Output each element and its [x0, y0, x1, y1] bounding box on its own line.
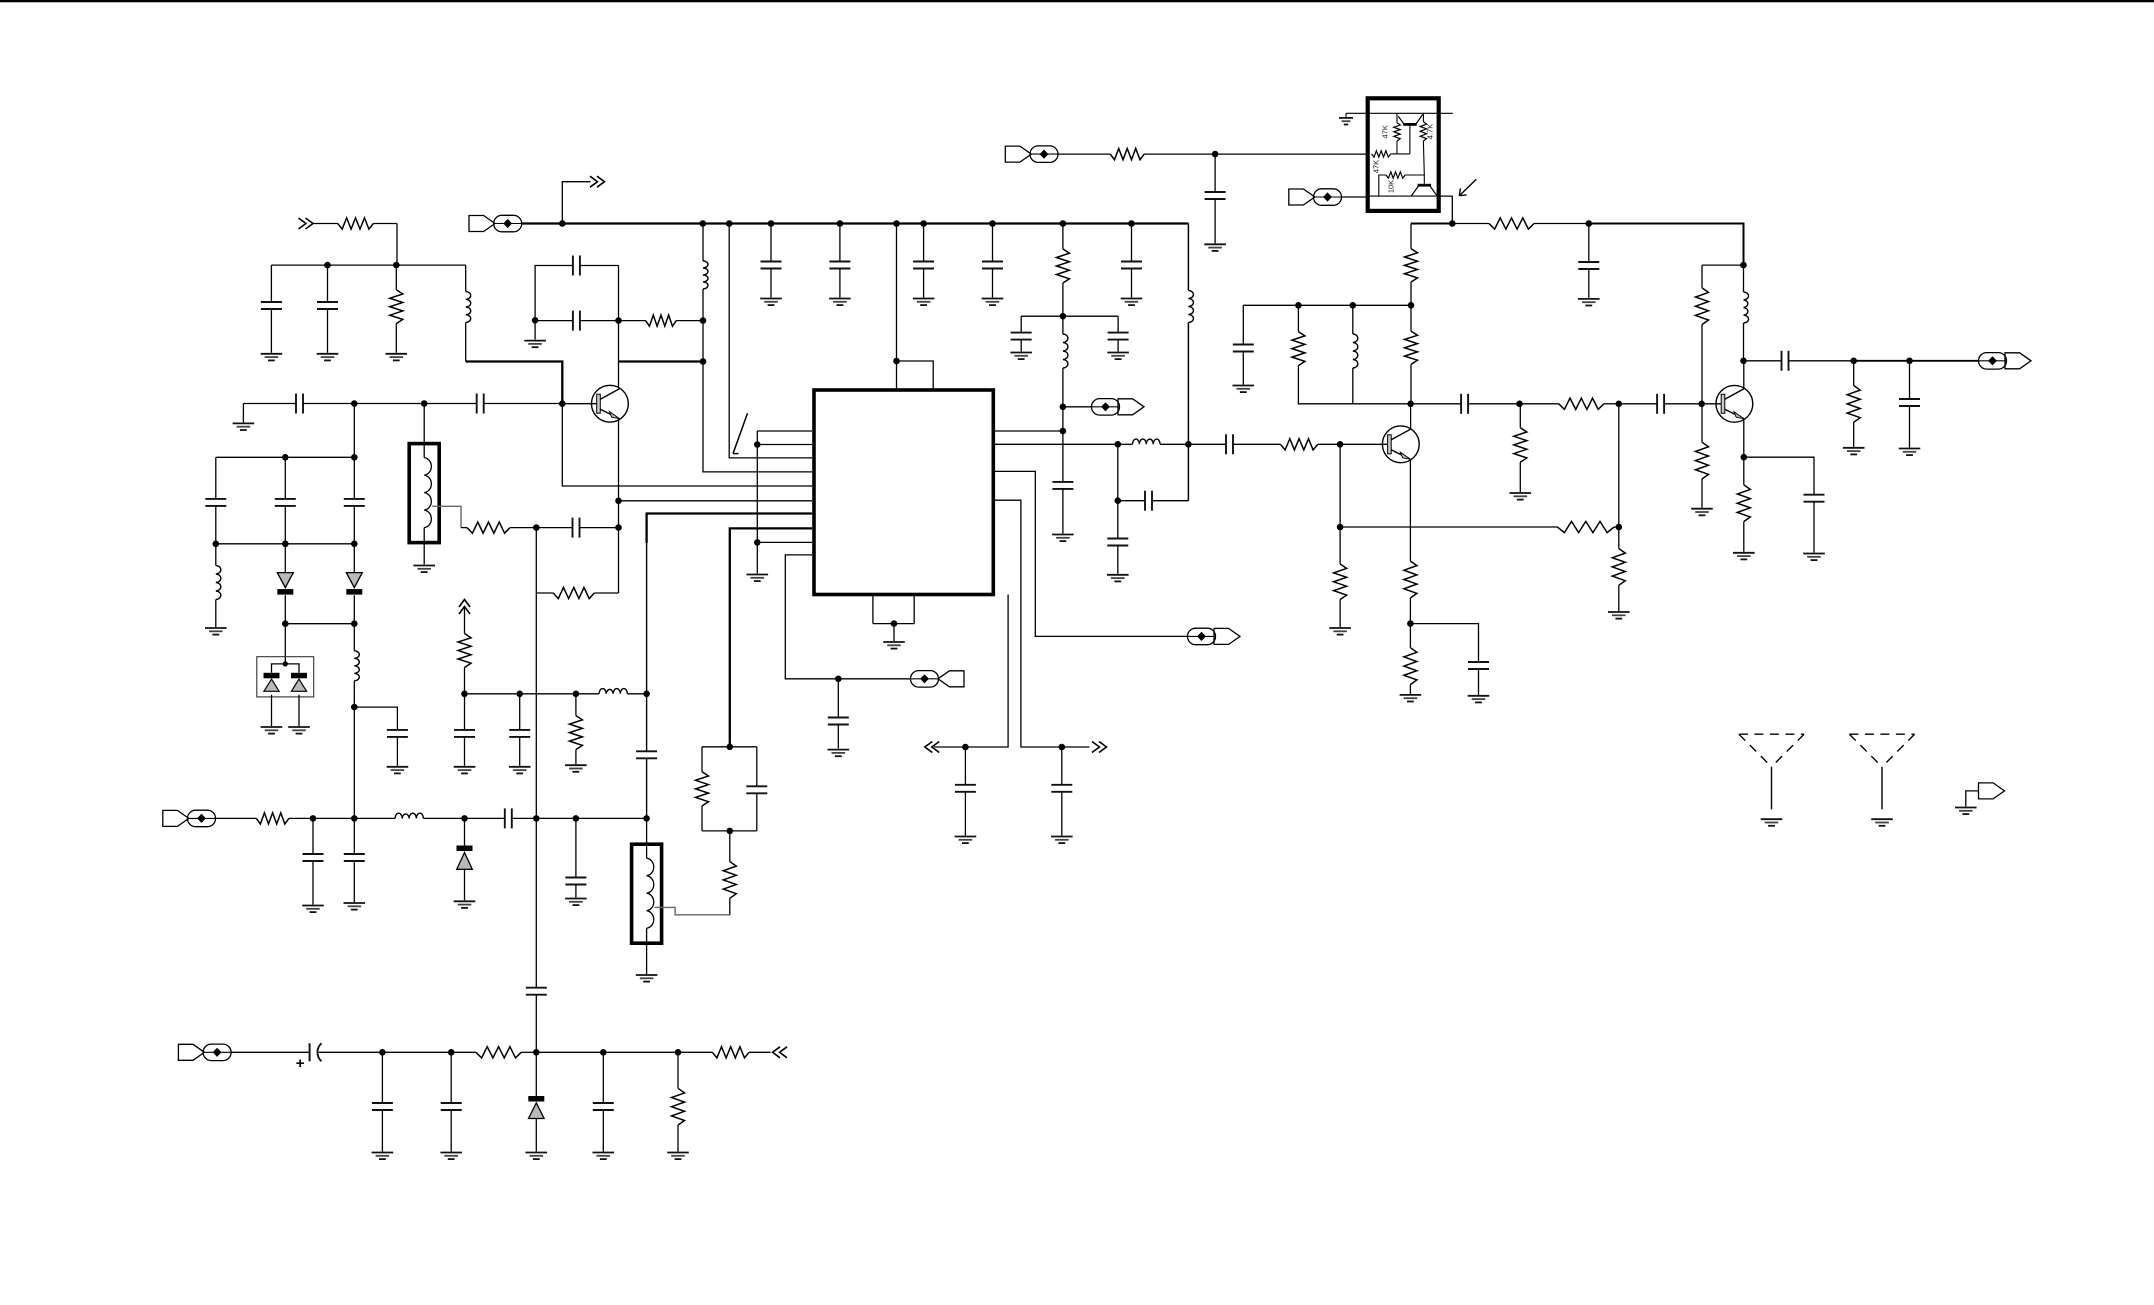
ground G47 — [760, 299, 782, 306]
wire j6 to box — [1341, 196, 1367, 198]
wire RB lead — [1391, 153, 1410, 155]
wire C24 stem — [1588, 224, 1590, 263]
wire L2 down — [702, 289, 704, 321]
ground G18 — [1107, 353, 1129, 360]
wire x215 drop — [215, 457, 217, 499]
wire base line mid — [354, 403, 424, 405]
capacitor C18 — [1108, 333, 1129, 352]
wire C16 stem — [1061, 747, 1063, 785]
ground G20 — [1107, 575, 1129, 582]
wire ic gnd stem — [893, 624, 895, 641]
node n693b — [516, 691, 523, 698]
wire base lead — [562, 403, 596, 405]
wire loop bottom lead — [535, 320, 573, 322]
wire box2 gnd stem — [646, 943, 648, 974]
wire bus drop 1063 — [1062, 224, 1064, 250]
wire lineD — [382, 1051, 451, 1053]
wire pin10 — [785, 555, 910, 679]
wire Q1 emitter drop — [618, 419, 620, 501]
wire leg mid — [535, 818, 537, 987]
connector J2 — [911, 671, 965, 688]
wire x354 to audio line — [353, 707, 355, 818]
node nvcc2b — [1586, 220, 1593, 227]
resistor R1 — [338, 218, 397, 229]
polarized capacitor C39 — [309, 1043, 311, 1061]
wire bus drop x729 — [729, 224, 812, 458]
wire bus cap stem 0 — [770, 224, 772, 262]
connector J5 — [1005, 146, 1058, 163]
connector J3 — [1188, 628, 1241, 645]
wire thick collector — [619, 360, 704, 362]
off-page arrow A6 — [773, 1047, 788, 1058]
resistor R9 — [1280, 439, 1340, 450]
node nbr2 — [1059, 744, 1066, 751]
wire ic bottom pins — [872, 595, 874, 624]
wire C1 riser — [270, 265, 272, 302]
capacitor C13 — [746, 747, 767, 831]
ground G22 (U2) — [1339, 118, 1353, 125]
ground ANT1 ground — [1761, 819, 1783, 826]
ground G14 — [883, 642, 905, 649]
wire x646 vert2 — [646, 694, 648, 752]
ground G46 — [667, 1153, 689, 1160]
transistor Q3 — [1716, 385, 1753, 422]
node n693c — [573, 691, 580, 698]
wire RD left leg — [1379, 175, 1386, 196]
wire j9 lead — [231, 1051, 310, 1053]
resistor R16 — [1514, 404, 1527, 492]
wire C33 stem — [312, 818, 314, 854]
node n1063a — [1060, 313, 1067, 320]
capacitor C2 — [317, 265, 338, 353]
ground G16 — [1051, 837, 1073, 844]
wire U2 gnd line — [1346, 112, 1453, 114]
wire D6 stem — [535, 1052, 537, 1096]
capacitor C36 — [526, 988, 547, 995]
wire C25 corner — [1242, 305, 1244, 344]
connector J4 TP — [1092, 399, 1145, 416]
node n403d — [1698, 401, 1705, 408]
capacitor C25 — [1233, 345, 1254, 385]
wire D4 gnd stem — [298, 695, 300, 726]
wire j10 gnd wire — [1966, 791, 1979, 807]
wire box2 riser — [646, 818, 648, 844]
wire pinR2 — [993, 443, 1118, 445]
node n623a — [282, 620, 289, 627]
capacitor C29 — [1744, 351, 1854, 371]
connector J9 — [178, 1044, 231, 1061]
wire C38 stem — [519, 694, 521, 730]
node ntap1 — [533, 524, 540, 531]
node n543c — [351, 541, 358, 548]
ground G24 — [1233, 386, 1255, 393]
wire R12 drop — [1410, 224, 1412, 249]
wire L1 to thick — [465, 322, 467, 361]
node n1052d — [600, 1049, 607, 1056]
ground G9 — [387, 767, 409, 774]
wire row265r — [1702, 264, 1744, 266]
wire bus drop x703 — [702, 224, 704, 261]
resistor R31 — [672, 1052, 685, 1151]
node n896 — [893, 358, 900, 365]
ground G6 — [205, 628, 227, 635]
node n707 — [351, 704, 358, 711]
capacitor C8 — [275, 457, 296, 544]
ground G40 — [509, 767, 531, 774]
capacitor C5 — [296, 394, 303, 414]
node bus b9 — [1128, 220, 1135, 227]
node n1118a — [1115, 441, 1122, 448]
wire lineC — [576, 817, 647, 819]
U2 resistor RD 10K — [1386, 172, 1405, 178]
node bus b1 — [700, 220, 707, 227]
inductor L6 — [1133, 439, 1161, 444]
capacitor C1 — [261, 302, 282, 353]
resistor R29 — [451, 1047, 536, 1058]
annotation arrow — [1459, 179, 1476, 195]
node n527a — [1337, 524, 1344, 531]
inductor L5 — [1063, 334, 1068, 368]
wire lineB — [536, 817, 576, 819]
wire tap up — [729, 898, 731, 915]
node np2 — [754, 441, 761, 448]
node np9 — [754, 539, 761, 546]
capacitor C38 — [509, 730, 530, 766]
capacitor C17 — [1011, 333, 1032, 352]
svg-text:47K: 47K — [1381, 125, 1390, 138]
wire icbr right — [993, 500, 1089, 747]
dual varactor box — [257, 657, 314, 697]
wire thick base — [466, 362, 563, 404]
wire pin9 — [757, 541, 812, 543]
U2 resistor RB 47K — [1372, 151, 1391, 157]
wire x1063 down — [1062, 407, 1064, 431]
wire C35 stem — [575, 818, 577, 877]
wire D1 stem — [284, 544, 286, 573]
antenna ANT1 — [1739, 734, 1804, 767]
inductor L3 — [216, 566, 221, 600]
wire lineF — [603, 1051, 678, 1053]
capacitor C32 — [465, 808, 537, 828]
node nrc2bot — [727, 828, 734, 835]
wire e branch — [1410, 624, 1478, 662]
wire long leg down — [535, 593, 537, 818]
inductor L2 — [703, 261, 708, 289]
wire box1 riser — [423, 404, 425, 444]
node bus-stub — [559, 220, 566, 227]
node n1052a — [379, 1049, 386, 1056]
wire bus corner — [1187, 224, 1189, 291]
wire ic top pin a — [896, 361, 898, 390]
resistor R8 — [1056, 249, 1069, 316]
wire bus to arrow — [562, 182, 590, 224]
wire pin2 — [757, 444, 812, 446]
wire vcc2 left — [1411, 223, 1452, 225]
wire D3 gnd stem — [271, 695, 273, 726]
wire L4 stem — [353, 624, 355, 651]
capacitor C43 — [761, 262, 782, 298]
wire row693b — [520, 693, 576, 695]
wire C19 stem — [1062, 431, 1064, 482]
node bus b4 — [837, 220, 844, 227]
node nbase3 — [559, 400, 566, 407]
node n1188 — [1185, 441, 1192, 448]
wire q2 base lead — [1340, 443, 1388, 445]
ground G15 — [955, 837, 977, 844]
ground G11 — [747, 575, 769, 582]
node nout1 — [1850, 358, 1857, 365]
wire L11 lead2 — [627, 693, 646, 695]
resistor R3 — [619, 315, 704, 326]
node n1052e — [675, 1049, 682, 1056]
node bus b8 — [1060, 220, 1067, 227]
node ngics — [891, 620, 898, 627]
capacitor C9 — [344, 457, 365, 544]
capacitor C33 — [303, 854, 324, 905]
capacitor C46 — [982, 262, 1003, 298]
diode D3 — [264, 673, 280, 692]
wire icbr conn — [993, 471, 1187, 636]
wire leg mid2 — [535, 995, 537, 1053]
wire R1 to node row — [396, 224, 398, 266]
capacitor C28 — [1468, 662, 1489, 695]
wire TP line — [1063, 406, 1092, 408]
capacitor C47 — [1121, 262, 1142, 298]
node nq0e — [615, 498, 622, 505]
wire x757 vert — [756, 431, 758, 542]
inductor L9 — [1744, 292, 1749, 323]
wire L5 down — [1062, 368, 1064, 407]
node n265r — [1740, 262, 1747, 269]
wire to box — [1215, 153, 1368, 155]
diode D4 — [291, 673, 307, 692]
ground G7 — [261, 727, 283, 734]
wire x1118 vert — [1117, 444, 1119, 538]
node nloop1 — [532, 317, 539, 324]
svg-text:+: + — [296, 1055, 305, 1072]
capacitor C34 — [344, 854, 365, 902]
wire ic top pin b — [897, 361, 934, 390]
capacitor C23 — [1205, 192, 1226, 243]
wire rc leg left — [535, 528, 537, 593]
inductor L8 — [1353, 334, 1358, 368]
ground G38 — [565, 899, 587, 906]
node ncol3 — [1740, 358, 1747, 365]
ground G42 — [372, 1153, 394, 1160]
capacitor C16 — [1051, 785, 1072, 836]
off-page arrow A1 (supply in) — [299, 218, 314, 229]
svg-text:47K: 47K — [1371, 160, 1380, 173]
hybrid block U2 — [1368, 98, 1439, 211]
wire R22 corner — [1701, 265, 1703, 288]
node nbr1 — [962, 744, 969, 751]
node bus b6 — [920, 220, 927, 227]
wire split — [272, 664, 300, 673]
wire RC top lead — [1422, 113, 1424, 121]
wire C41 stem — [450, 1052, 452, 1103]
resistor R26 — [256, 813, 313, 824]
node n154 — [1212, 151, 1219, 158]
U2 resistor RC 4.7K — [1420, 122, 1426, 141]
node n623e — [1407, 620, 1414, 627]
transistor Q2 — [1382, 426, 1419, 463]
wire out line — [1854, 360, 1910, 362]
capacitor C4 — [573, 311, 580, 331]
resistor R21 — [1404, 624, 1417, 694]
wire U2 out — [1439, 196, 1453, 223]
ground G12 — [636, 975, 658, 982]
node nbox — [283, 661, 288, 666]
resistor R28 — [569, 694, 582, 764]
ground G21 — [1204, 244, 1226, 251]
ground G51 — [1121, 299, 1143, 306]
node n1052c — [533, 1049, 540, 1056]
wire pin1 — [757, 430, 812, 432]
off-page arrow A2 — [590, 176, 605, 187]
ground G26 — [1608, 612, 1630, 619]
U2 transistor QB — [1418, 184, 1432, 187]
wire x354 up — [353, 404, 355, 458]
capacitor C3 — [573, 256, 619, 276]
node n543a — [213, 541, 220, 548]
wire vcc2 right — [1589, 224, 1744, 266]
diode D1 — [277, 573, 293, 595]
node n265b — [393, 262, 400, 269]
ground G10 — [413, 566, 435, 573]
ground G36 — [344, 903, 366, 910]
ground G45 — [593, 1153, 615, 1160]
wire loop-collector link — [618, 321, 620, 389]
wire pin8 thick — [730, 528, 812, 746]
node bus b2 — [726, 220, 733, 227]
resistor R25 — [1737, 457, 1750, 552]
wire x703 down2 — [702, 321, 704, 362]
node n403a — [1407, 401, 1414, 408]
off-page arrow A3 — [925, 742, 940, 753]
wire j5 to R10 — [1058, 153, 1110, 155]
wire base line mid2 — [424, 403, 477, 405]
wire C34 stem — [353, 818, 355, 854]
wire L10 lead2 — [423, 817, 464, 819]
node ne3 — [1741, 454, 1748, 461]
node n457b — [351, 454, 358, 461]
wire row543 — [216, 543, 354, 545]
wire gnd corner — [242, 404, 244, 423]
capacitor C6 — [477, 394, 563, 414]
resistor R20 — [1404, 561, 1417, 624]
capacitor C19 — [1052, 482, 1073, 534]
ground G35 — [302, 906, 324, 913]
wire cap500 line — [1118, 500, 1145, 502]
node n265a — [324, 262, 331, 269]
wire C23 stem — [1214, 154, 1216, 192]
wire bus cap stem 4 — [1131, 224, 1133, 262]
wire subnet capR — [1117, 316, 1119, 332]
ground G30 — [1691, 509, 1713, 516]
wire q3 base lead — [1702, 403, 1722, 405]
wire C30 stem — [1909, 361, 1911, 399]
ground G49 — [913, 299, 935, 306]
no-connect marker — [733, 413, 748, 453]
connector J8 AF IN — [163, 810, 216, 827]
wire rc leg right — [618, 501, 620, 593]
ground G39 — [454, 767, 476, 774]
wire RC-QB vert — [1422, 141, 1425, 184]
wire q3 emitter — [1743, 419, 1745, 457]
ground G17 — [1010, 353, 1032, 360]
wire D5 stem2 — [464, 869, 466, 900]
ground G31 — [1843, 448, 1865, 455]
wire row693 — [465, 693, 520, 695]
wire loop gnd stem — [534, 321, 536, 340]
svg-text:4.7K: 4.7K — [1426, 124, 1435, 139]
resistor R6 — [696, 747, 709, 831]
wire C4 to n — [580, 320, 618, 322]
resistor R27 — [458, 608, 471, 694]
resistor R17 — [1340, 521, 1619, 532]
wire chevron to R1 — [314, 223, 338, 225]
wire D2 to row — [353, 595, 355, 624]
node n527b — [1616, 524, 1623, 531]
wire x646 vert — [646, 543, 648, 694]
IC U1 — [814, 390, 993, 595]
ground G25 — [1510, 493, 1532, 500]
ground G32 — [1899, 449, 1921, 456]
node nbase2 — [421, 400, 428, 407]
wire to diode box — [284, 624, 286, 664]
node n457a — [282, 454, 289, 461]
wire T2 tap — [655, 907, 730, 914]
ground G27 — [1329, 628, 1351, 635]
node n703b — [700, 358, 707, 365]
node nbase1 — [351, 400, 358, 407]
resistor R18 — [1612, 527, 1625, 611]
wire bus drop x896 — [896, 224, 898, 362]
capacitor C21 — [1145, 491, 1188, 511]
node nout2 — [1906, 358, 1913, 365]
ground G53 — [1955, 808, 1977, 815]
ground G29 — [1468, 696, 1490, 703]
wire x1618 vert — [1618, 404, 1620, 527]
node n305b — [1295, 302, 1302, 309]
connector J6 — [1289, 189, 1342, 206]
node n678 — [835, 676, 842, 683]
node n623b — [351, 620, 358, 627]
wire C5 to n — [303, 403, 355, 405]
capacitor C27 — [1619, 394, 1702, 414]
ground G44 — [526, 1153, 548, 1160]
wire x703 to pin4 — [703, 362, 812, 472]
IF transformer T2 — [632, 844, 662, 943]
wire D2 stem — [353, 544, 355, 573]
wire j8 lead — [216, 817, 257, 819]
wire L5 leads — [1062, 316, 1064, 334]
off-page arrow A4 — [1092, 742, 1107, 753]
off-page arrow A5 — [459, 600, 470, 615]
wire L8 down — [1352, 368, 1354, 404]
resistor R4 — [461, 522, 536, 533]
node n403b — [1516, 401, 1523, 408]
wire q3 collector — [1743, 361, 1745, 389]
node n703a — [700, 317, 707, 324]
wire emitter to pin6 — [619, 500, 813, 502]
wire U2 bottom rail — [1368, 195, 1439, 197]
capacitor C7 — [205, 499, 226, 544]
wire ic bottom rail — [873, 623, 914, 625]
wire D6 stem2 — [535, 1119, 537, 1152]
wire c39 lead — [319, 1051, 383, 1053]
node n818a — [310, 815, 317, 822]
